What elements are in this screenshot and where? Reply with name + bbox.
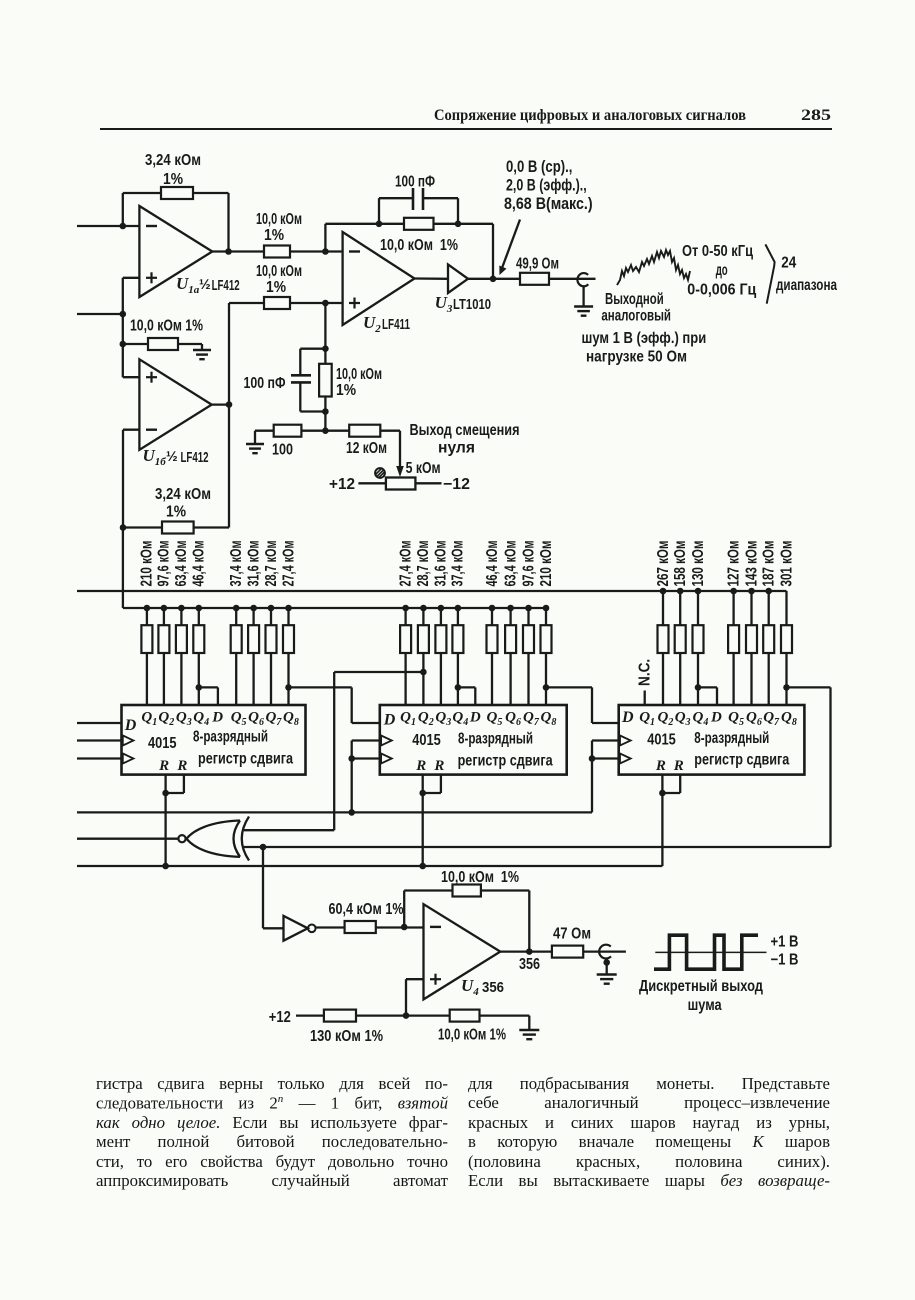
svg-text:LT1010: LT1010 — [453, 297, 491, 313]
svg-text:4015: 4015 — [412, 732, 441, 749]
svg-text:10,0 кОм 1%: 10,0 кОм 1% — [438, 1027, 506, 1044]
svg-text:Q2: Q2 — [418, 710, 434, 729]
svg-text:158 кОм: 158 кОм — [672, 541, 689, 587]
svg-text:8-разрядный: 8-разрядный — [458, 731, 533, 748]
svg-text:Q6: Q6 — [746, 710, 762, 729]
svg-text:Q7: Q7 — [266, 710, 283, 729]
svg-text:100 пФ: 100 пФ — [244, 375, 286, 392]
svg-text:4015: 4015 — [647, 732, 676, 749]
svg-text:285: 285 — [801, 107, 831, 124]
svg-text:Q4: Q4 — [693, 710, 709, 729]
svg-text:4015: 4015 — [148, 735, 177, 752]
svg-text:1%: 1% — [163, 171, 183, 188]
svg-text:187 кОм: 187 кОм — [761, 541, 778, 587]
svg-text:8-разрядный: 8-разрядный — [193, 729, 268, 746]
svg-text:U1a: U1a — [176, 274, 200, 296]
svg-text:2,0 В (эфф.).,: 2,0 В (эфф.)., — [506, 177, 587, 195]
svg-text:31,6 кОм: 31,6 кОм — [245, 541, 262, 587]
svg-text:Q2: Q2 — [158, 710, 174, 729]
svg-text:Q5: Q5 — [231, 710, 247, 729]
svg-text:Q1: Q1 — [400, 710, 416, 729]
svg-text:Q8: Q8 — [781, 710, 797, 729]
svg-text:LF412: LF412 — [181, 450, 209, 466]
svg-text:нуля: нуля — [438, 440, 475, 457]
svg-text:10,0 кОм 1%: 10,0 кОм 1% — [380, 237, 458, 254]
svg-text:R: R — [415, 758, 426, 774]
svg-text:регистр сдвига: регистр сдвига — [458, 753, 553, 770]
svg-text:3,24 кОм: 3,24 кОм — [145, 152, 201, 169]
svg-text:LF411: LF411 — [382, 317, 410, 333]
svg-text:D: D — [710, 710, 722, 726]
svg-text:+1 В: +1 В — [771, 934, 799, 951]
svg-text:1%: 1% — [166, 504, 186, 521]
svg-text:10,0 кОм: 10,0 кОм — [256, 263, 302, 280]
svg-text:D: D — [124, 717, 137, 734]
svg-text:60,4 кОм 1%: 60,4 кОм 1% — [329, 901, 404, 918]
svg-text:12 кОм: 12 кОм — [346, 440, 387, 457]
svg-text:97,6 кОм: 97,6 кОм — [156, 541, 173, 587]
svg-text:U2: U2 — [363, 313, 381, 335]
svg-text:37,4 кОм: 37,4 кОм — [228, 541, 245, 587]
svg-text:Q8: Q8 — [283, 710, 299, 729]
svg-text:R: R — [655, 758, 666, 774]
svg-text:100 пФ: 100 пФ — [395, 174, 435, 191]
svg-text:аналоговый: аналоговый — [601, 308, 671, 325]
svg-text:Сопряжение цифровых и аналогов: Сопряжение цифровых и аналоговых сигнало… — [434, 107, 746, 124]
svg-text:шум 1 В (эфф.) при: шум 1 В (эфф.) при — [582, 330, 707, 347]
svg-text:130 кОм: 130 кОм — [690, 541, 707, 587]
svg-text:210 кОм: 210 кОм — [538, 541, 555, 587]
svg-text:37,4 кОм: 37,4 кОм — [450, 541, 467, 587]
svg-text:Q3: Q3 — [675, 710, 691, 729]
svg-text:R: R — [433, 758, 444, 774]
svg-text:U3: U3 — [435, 293, 453, 315]
svg-text:Q6: Q6 — [248, 710, 264, 729]
svg-text:нагрузке 50 Ом: нагрузке 50 Ом — [586, 349, 687, 366]
svg-text:регистр сдвига: регистр сдвига — [198, 751, 293, 768]
svg-text:−1 В: −1 В — [771, 952, 799, 969]
svg-text:5 кОм: 5 кОм — [406, 460, 441, 477]
svg-text:10,0 кОм 1%: 10,0 кОм 1% — [130, 318, 203, 335]
svg-text:R: R — [176, 758, 187, 774]
svg-text:U4: U4 — [461, 976, 479, 998]
svg-text:Q1: Q1 — [141, 710, 157, 729]
svg-text:½: ½ — [166, 448, 178, 464]
svg-text:63,4 кОм: 63,4 кОм — [173, 541, 190, 587]
svg-text:356: 356 — [482, 979, 504, 996]
svg-text:N.C.: N.C. — [637, 659, 654, 686]
svg-text:0-0,006 Гц: 0-0,006 Гц — [687, 282, 756, 299]
svg-text:+12: +12 — [329, 476, 355, 493]
svg-text:47 Ом: 47 Ом — [553, 926, 591, 943]
svg-text:D: D — [621, 709, 634, 726]
svg-text:½: ½ — [199, 276, 211, 292]
svg-text:−12: −12 — [443, 476, 470, 493]
svg-text:3,24 кОм: 3,24 кОм — [155, 486, 211, 503]
svg-text:0,0 В (ср).,: 0,0 В (ср)., — [506, 158, 572, 176]
svg-text:10,0 кОм 1%: 10,0 кОм 1% — [441, 869, 519, 886]
svg-text:Выход смещения: Выход смещения — [410, 422, 520, 439]
svg-text:143 кОм: 143 кОм — [743, 541, 760, 587]
svg-text:Q3: Q3 — [176, 710, 192, 729]
svg-text:28,7 кОм: 28,7 кОм — [415, 541, 432, 587]
svg-text:8,68 В(макс.): 8,68 В(макс.) — [504, 195, 593, 213]
svg-text:301 кОм: 301 кОм — [778, 541, 795, 587]
svg-text:Q4: Q4 — [193, 710, 209, 729]
svg-text:диапазона: диапазона — [776, 277, 837, 294]
svg-text:Q8: Q8 — [541, 710, 557, 729]
svg-text:Q3: Q3 — [435, 710, 451, 729]
svg-text:8-разрядный: 8-разрядный — [694, 730, 769, 747]
svg-text:От 0-50 кГц: От 0-50 кГц — [682, 243, 753, 260]
svg-text:1%: 1% — [266, 279, 286, 296]
svg-text:+12: +12 — [269, 1009, 291, 1026]
svg-text:R: R — [673, 758, 684, 774]
svg-text:Q1: Q1 — [639, 710, 655, 729]
svg-text:D: D — [383, 712, 396, 729]
svg-text:Q6: Q6 — [505, 710, 521, 729]
svg-text:Q7: Q7 — [763, 710, 780, 729]
svg-text:U1б: U1б — [143, 446, 167, 468]
svg-text:10,0 кОм: 10,0 кОм — [256, 211, 302, 228]
svg-text:356: 356 — [519, 956, 540, 973]
svg-text:27,4 кОм: 27,4 кОм — [280, 541, 297, 587]
svg-text:97,6 кОм: 97,6 кОм — [520, 541, 537, 587]
svg-text:49,9 Ом: 49,9 Ом — [516, 256, 559, 273]
svg-text:1%: 1% — [336, 382, 356, 399]
svg-text:210 кОм: 210 кОм — [139, 541, 156, 587]
svg-text:D: D — [469, 710, 481, 726]
svg-text:127 кОм: 127 кОм — [725, 541, 742, 587]
svg-text:46,4 кОм: 46,4 кОм — [191, 541, 208, 587]
svg-text:шума: шума — [688, 997, 722, 1014]
svg-text:10,0 кОм: 10,0 кОм — [336, 366, 382, 383]
svg-text:Q2: Q2 — [658, 710, 674, 729]
svg-text:до: до — [716, 262, 728, 279]
svg-text:27,4 кОм: 27,4 кОм — [397, 541, 414, 587]
svg-text:100: 100 — [272, 442, 293, 459]
svg-text:регистр сдвига: регистр сдвига — [694, 752, 789, 769]
svg-text:130 кОм 1%: 130 кОм 1% — [310, 1028, 383, 1045]
svg-text:LF412: LF412 — [212, 278, 240, 294]
svg-text:R: R — [158, 758, 169, 774]
svg-text:28,7 кОм: 28,7 кОм — [263, 541, 280, 587]
svg-text:46,4 кОм: 46,4 кОм — [484, 541, 501, 587]
svg-text:267 кОм: 267 кОм — [655, 541, 672, 587]
svg-text:Выходной: Выходной — [605, 291, 664, 308]
svg-text:D: D — [211, 710, 223, 726]
svg-text:Q7: Q7 — [523, 710, 540, 729]
svg-text:24: 24 — [781, 255, 796, 272]
svg-text:31,6 кОм: 31,6 кОм — [433, 541, 450, 587]
svg-text:Q5: Q5 — [728, 710, 744, 729]
svg-text:Q4: Q4 — [452, 710, 468, 729]
svg-text:Дискретный выход: Дискретный выход — [639, 978, 763, 995]
svg-text:1%: 1% — [264, 227, 284, 244]
svg-text:Q5: Q5 — [487, 710, 503, 729]
svg-text:63,4 кОм: 63,4 кОм — [502, 541, 519, 587]
